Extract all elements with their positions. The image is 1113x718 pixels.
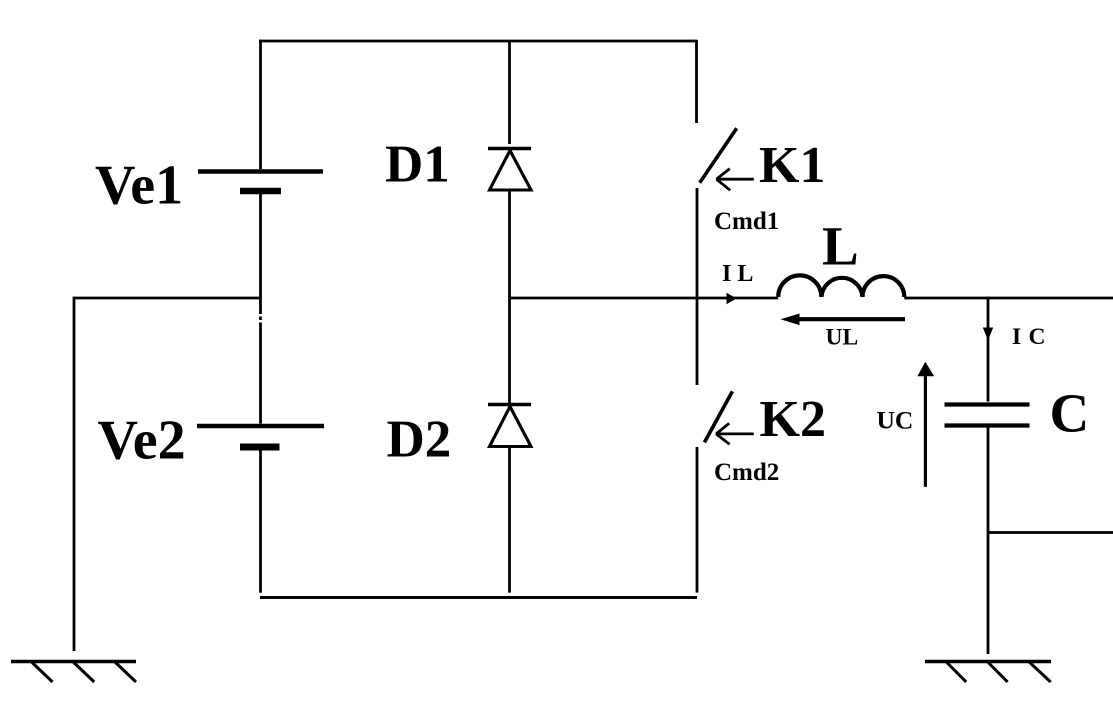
svg-text:K1: K1 [759, 137, 825, 194]
svg-text:K2: K2 [760, 391, 826, 448]
svg-text:UL: UL [826, 324, 859, 350]
svg-text:Cmd1: Cmd1 [714, 208, 779, 235]
svg-text:Ve2: Ve2 [98, 410, 186, 472]
svg-text:UC: UC [877, 406, 914, 435]
svg-text:Ve1: Ve1 [95, 155, 183, 217]
svg-text:D1: D1 [385, 135, 450, 193]
svg-text:C: C [1050, 383, 1090, 444]
svg-text:C: C [1029, 324, 1046, 350]
svg-text:I L: I L [722, 261, 753, 287]
svg-text:D2: D2 [387, 411, 452, 469]
svg-text:Cmd2: Cmd2 [714, 459, 779, 486]
svg-text:L: L [822, 216, 859, 277]
svg-text:I: I [1012, 324, 1021, 350]
